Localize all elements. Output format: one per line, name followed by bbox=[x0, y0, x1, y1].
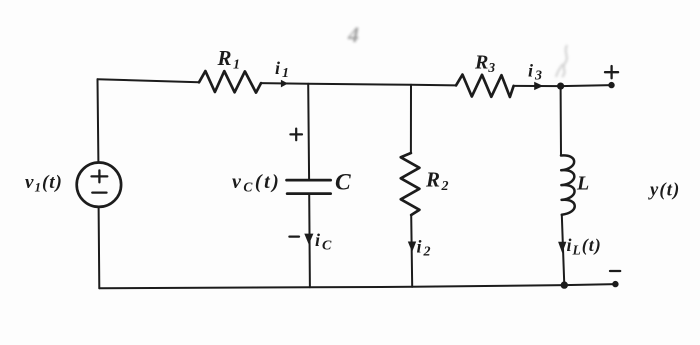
svg-text:vC(t): vC(t) bbox=[232, 171, 281, 195]
svg-text:iC: iC bbox=[315, 230, 333, 254]
svg-text:i2: i2 bbox=[417, 237, 433, 260]
svg-text:R3: R3 bbox=[474, 52, 495, 76]
svg-text:R1: R1 bbox=[217, 46, 242, 73]
svg-text:R2: R2 bbox=[425, 168, 450, 195]
svg-text:i3: i3 bbox=[528, 61, 544, 84]
svg-text:y(t): y(t) bbox=[648, 181, 680, 201]
svg-text:i1: i1 bbox=[275, 58, 291, 81]
svg-text:L: L bbox=[576, 173, 589, 195]
svg-text:iL(t): iL(t) bbox=[567, 235, 602, 258]
svg-text:v1(t): v1(t) bbox=[25, 172, 63, 195]
svg-text:4: 4 bbox=[347, 22, 359, 47]
svg-text:C: C bbox=[335, 170, 351, 196]
